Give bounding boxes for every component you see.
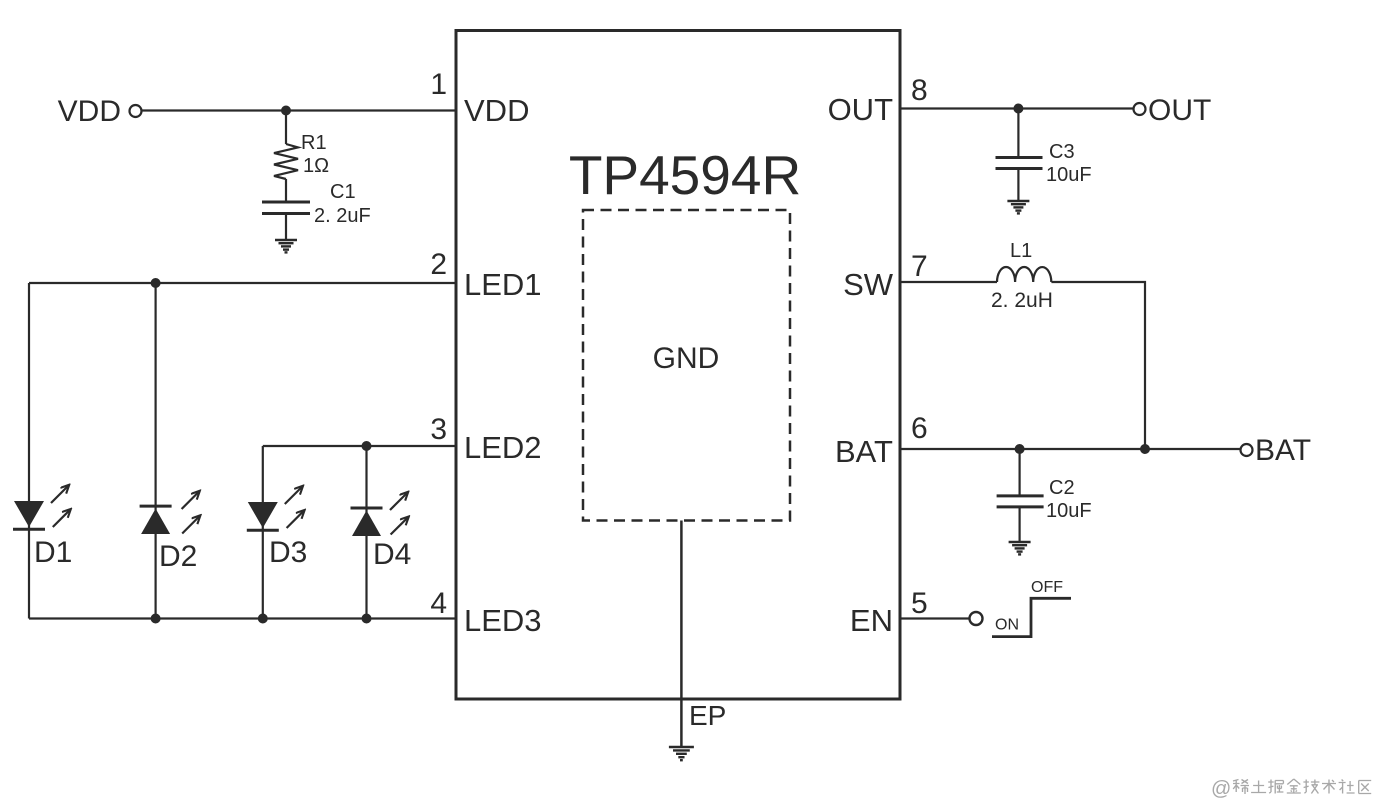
wire C1 to ground [285, 214, 287, 241]
wire C2 top lead [1018, 449, 1020, 495]
svg-text:VDD: VDD [58, 95, 121, 128]
svg-text:OUT: OUT [828, 92, 894, 127]
LED D2 (reversed) [140, 492, 200, 534]
svg-text:C1: C1 [330, 181, 356, 203]
svg-text:TP4594R: TP4594R [569, 144, 801, 206]
svg-text:4: 4 [430, 587, 447, 620]
svg-text:VDD: VDD [464, 93, 529, 128]
LED D3 [247, 487, 304, 530]
junction dot BAT / C2 [1015, 444, 1025, 454]
svg-text:L1: L1 [1010, 240, 1032, 262]
wire VDD terminal to pin 1 [142, 109, 457, 111]
svg-text:LED3: LED3 [464, 603, 542, 638]
capacitor C1 [262, 202, 310, 214]
svg-text:C2: C2 [1049, 477, 1075, 499]
svg-text:5: 5 [911, 587, 928, 620]
svg-text:EP: EP [689, 700, 726, 731]
wire pin 4 LED3 bottom rail [29, 617, 456, 619]
node VDD input terminal circle [130, 105, 142, 117]
wire C3 to ground [1017, 169, 1019, 202]
svg-text:GND: GND [653, 342, 720, 375]
svg-text:3: 3 [430, 413, 447, 446]
junction dot BAT / L1 branch [1140, 444, 1150, 454]
IC U1 internal GND paddle (dashed) [583, 210, 790, 521]
svg-text:2. 2uH: 2. 2uH [991, 289, 1053, 312]
wire L1 to BAT node [1051, 282, 1145, 449]
svg-text:EN: EN [850, 603, 893, 638]
svg-text:D1: D1 [34, 536, 72, 569]
svg-text:C3: C3 [1049, 141, 1075, 163]
ground (C3) [1007, 201, 1029, 213]
svg-text:1Ω: 1Ω [303, 155, 329, 177]
junction dot bottom rail / D3 [258, 614, 268, 624]
svg-text:D4: D4 [373, 538, 411, 571]
node BAT terminal circle [1241, 444, 1253, 456]
svg-text:1: 1 [430, 68, 447, 101]
wire EP lead [680, 521, 683, 748]
junction dot OUT / C3 [1013, 104, 1023, 114]
wire pin 5 EN lead [900, 617, 969, 619]
svg-text:D2: D2 [159, 540, 197, 573]
svg-text:8: 8 [911, 74, 928, 107]
svg-text:OUT: OUT [1148, 94, 1211, 127]
IC U1 TP4594R body [456, 31, 900, 700]
watermark [1211, 778, 1371, 800]
junction dot bottom rail / D4 [362, 614, 372, 624]
svg-text:D3: D3 [269, 536, 307, 569]
wire D4 branch vertical [365, 446, 367, 619]
ground (EP) [669, 747, 694, 760]
svg-text:R1: R1 [301, 132, 327, 154]
LED D1 [13, 486, 70, 529]
svg-text:7: 7 [911, 250, 928, 283]
LED D4 (reversed) [351, 493, 408, 536]
svg-text:LED2: LED2 [464, 430, 542, 465]
wire R1 top lead [285, 111, 287, 145]
node EN terminal circle [970, 612, 983, 625]
capacitor C3 [996, 158, 1043, 169]
wire pin 3 LED2 rail [263, 445, 456, 447]
svg-text:OFF: OFF [1031, 579, 1063, 596]
junction dot VDD / R1 [281, 106, 291, 116]
inductor L1 [997, 267, 1051, 282]
node OUT terminal circle [1134, 103, 1146, 115]
junction dot LED2/D4 [362, 441, 372, 451]
capacitor C2 [997, 496, 1044, 507]
wire C2 to ground [1018, 507, 1020, 542]
resistor R1 [274, 144, 298, 179]
svg-text:10uF: 10uF [1046, 500, 1092, 522]
ground (C2) [1009, 542, 1031, 554]
wire C3 top lead [1017, 109, 1019, 158]
wire left bus (D1 branch vertical) [28, 283, 30, 619]
svg-text:BAT: BAT [1255, 434, 1311, 467]
wire pin 8 OUT rail [900, 107, 1134, 109]
wire pin 2 LED1 rail [29, 282, 456, 284]
svg-text:6: 6 [911, 412, 928, 445]
svg-text:10uF: 10uF [1046, 164, 1092, 186]
wire D2 branch vertical [155, 283, 157, 619]
wire pin 7 SW to L1 [900, 281, 997, 283]
EN waveform step [992, 598, 1071, 636]
svg-text:2: 2 [430, 248, 447, 281]
wire D3 branch vertical [262, 446, 264, 619]
ground (C1) [275, 240, 297, 252]
wire R1 to C1 [285, 179, 287, 201]
wire pin 6 BAT rail [900, 448, 1241, 450]
svg-text:SW: SW [843, 267, 894, 302]
svg-text:ON: ON [995, 617, 1019, 634]
svg-text:BAT: BAT [835, 434, 893, 469]
junction dot bottom rail / D2 [151, 614, 161, 624]
junction dot LED1/D2 [151, 278, 161, 288]
svg-text:@: @ [1211, 778, 1231, 800]
svg-text:2. 2uF: 2. 2uF [314, 205, 371, 227]
svg-text:LED1: LED1 [464, 267, 542, 302]
